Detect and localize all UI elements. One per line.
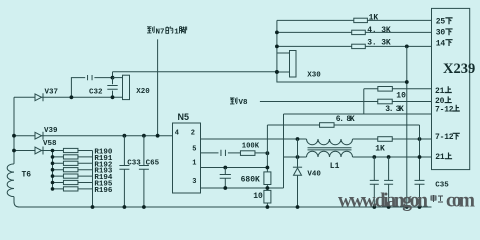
wire R195 row	[53, 182, 93, 184]
op-amp IC N5	[173, 123, 201, 193]
wire 21shang lower left	[284, 156, 307, 158]
svg-text:C32: C32	[89, 88, 103, 96]
wire 100K to node	[255, 152, 267, 154]
svg-text:N5: N5	[178, 112, 190, 122]
svg-text:4. 3K: 4. 3K	[367, 26, 391, 35]
capacitor C35	[415, 180, 425, 184]
svg-text:V58: V58	[43, 140, 57, 148]
svg-text:com: com	[446, 191, 475, 212]
wire C65 upper	[143, 136, 145, 166]
inductor L1 top winding	[307, 139, 353, 145]
junction C65 bottom	[142, 205, 146, 209]
wire R ladder rail right	[92, 151, 94, 208]
label dao (to) of V8 note	[230, 97, 237, 104]
svg-text:7-12: 7-12	[435, 105, 454, 114]
label de of N7 note	[166, 26, 173, 33]
resistor 10 vertical	[264, 190, 271, 203]
svg-text:N7: N7	[156, 28, 165, 36]
terminal 30xia cjk	[445, 29, 452, 35]
wire C65 lower	[143, 169, 145, 207]
wire cap b	[388, 157, 390, 207]
svg-text:X30: X30	[307, 71, 321, 79]
svg-text:5: 5	[192, 145, 196, 153]
wire 30xia 4.3K	[277, 31, 432, 33]
wire N5 pin5 to cap	[201, 152, 219, 154]
wire R196 row	[53, 188, 93, 190]
junction R190 left	[51, 149, 55, 153]
wire 6.8K net	[267, 124, 419, 126]
resistor R193	[63, 168, 77, 172]
wire pin3 riser	[283, 114, 285, 188]
svg-text:100K: 100K	[242, 143, 260, 151]
capacitor pin1-pin3	[220, 175, 231, 179]
wire R193 row	[53, 169, 93, 171]
svg-text:C35: C35	[435, 181, 449, 189]
diode V58	[35, 147, 42, 154]
junction C65 top	[142, 134, 146, 138]
svg-text:3: 3	[192, 178, 196, 186]
junction rail 3.3K	[275, 45, 279, 49]
resistor R195	[63, 180, 77, 184]
wire X30 bottom lead	[277, 71, 290, 73]
capacitor filter a	[370, 180, 379, 184]
junction C32 bottom node	[111, 95, 115, 99]
junction R194 left	[51, 174, 55, 178]
wire C33 lower	[123, 169, 125, 207]
svg-text:21: 21	[435, 153, 445, 162]
junction 14xia gnd riser	[405, 45, 409, 49]
junction R193 left	[51, 168, 55, 172]
wire cap to 100K	[228, 152, 240, 154]
connector X30	[290, 51, 297, 78]
junction gnd riser top net	[405, 80, 409, 84]
svg-text:1: 1	[174, 28, 179, 36]
svg-text:1: 1	[192, 160, 196, 168]
wire gnd riser	[406, 46, 408, 207]
resistor 1K upper	[354, 18, 368, 22]
terminal 14xia cjk	[445, 40, 452, 46]
wire right net rail	[277, 20, 407, 82]
wire C32 top to node	[94, 77, 112, 79]
wire N5 pin3	[201, 187, 284, 189]
inductor L1 core lines	[308, 148, 352, 150]
svg-text:6. 8K: 6. 8K	[336, 115, 355, 124]
label jiao (pin) of N7 note	[179, 27, 186, 34]
wire N5 pin1	[201, 167, 268, 169]
wire C33 upper	[123, 136, 125, 166]
resistor 100K	[240, 151, 255, 156]
capacitor C32	[107, 86, 117, 90]
resistor 680K	[264, 172, 271, 185]
svg-text:3. 3K: 3. 3K	[367, 38, 391, 47]
resistor 4.3K	[352, 30, 366, 34]
svg-text:30: 30	[436, 29, 446, 38]
junction 100K node	[266, 151, 270, 155]
resistor R196	[63, 187, 77, 191]
resistor 6.8K	[320, 123, 335, 128]
wire R192 row	[53, 162, 93, 164]
svg-text:X239: X239	[443, 61, 475, 77]
diode V40	[294, 168, 302, 175]
wire C35 riser upper	[419, 125, 421, 180]
junction cap a top	[372, 155, 376, 159]
junction pin1 680K	[266, 166, 270, 170]
svg-text:4: 4	[175, 129, 179, 137]
wire 21shang upper	[364, 88, 432, 90]
svg-text:V39: V39	[44, 127, 58, 135]
wire N5 pin2 to L1	[201, 138, 307, 140]
svg-text:10: 10	[253, 192, 263, 201]
wire C32 cap stub	[112, 78, 114, 98]
wire V37 anode-cathode	[14, 96, 123, 98]
svg-text:2: 2	[191, 129, 195, 137]
svg-text:25: 25	[436, 18, 446, 27]
terminal 7-12xia cjk	[453, 133, 460, 139]
wire 25xia 1K	[277, 19, 432, 21]
terminal 25xia cjk	[445, 18, 452, 24]
capacitor pin5 series	[221, 150, 226, 156]
junction R191 left	[51, 155, 55, 159]
svg-text:V37: V37	[45, 89, 59, 97]
resistor R192	[63, 161, 77, 165]
wire left rail top	[13, 97, 15, 164]
wire top net	[113, 71, 277, 73]
svg-text:C65: C65	[146, 160, 160, 168]
wire node riser to top net	[112, 72, 114, 78]
terminal 21shang upper cjk	[445, 86, 452, 92]
junction C33 bottom	[123, 205, 127, 209]
terminal 21shang lower cjk	[445, 153, 452, 159]
junction pin3 cap	[223, 186, 227, 190]
terminal 7-12shang cjk	[453, 105, 460, 111]
wire L1 to 7-12xia terminal	[353, 138, 432, 140]
wire R194 row	[53, 175, 93, 177]
svg-text:X20: X20	[136, 88, 150, 96]
wire to N7 pin1	[157, 39, 159, 135]
svg-text:V40: V40	[307, 171, 321, 179]
junction cap a gnd	[372, 205, 376, 209]
capacitor filter b	[384, 180, 393, 184]
resistor R194	[63, 174, 77, 178]
junction top net rail	[275, 70, 279, 74]
junction C35 21shang	[418, 155, 422, 159]
capacitor C33	[119, 166, 129, 170]
resistor 3.3K upper	[352, 44, 366, 48]
junction C32 left	[70, 95, 74, 99]
svg-text:10: 10	[396, 92, 406, 101]
wire 14xia 3.3K	[277, 45, 432, 47]
diode V39	[35, 132, 42, 139]
junction R195 left	[51, 181, 55, 185]
svg-text:14: 14	[436, 39, 446, 48]
junction rail 4.3K	[275, 31, 279, 35]
wire 20shang toV8	[260, 101, 432, 103]
label dao (to) of N7 note	[147, 26, 154, 33]
resistor 10 upper	[378, 87, 393, 92]
wire left rail bottom / bottom-left corner	[14, 197, 19, 207]
svg-text:T6: T6	[22, 170, 32, 179]
junction 267 gnd	[266, 205, 270, 209]
junction R rail bottom	[91, 205, 95, 209]
junction pin3 680K-10	[266, 186, 270, 190]
wire V40 line lower	[297, 176, 299, 207]
resistor 3.3K lower	[378, 99, 393, 104]
wire pin1-cap stub	[224, 168, 226, 189]
svg-text:7-12: 7-12	[435, 133, 454, 142]
wire C32 riser left	[71, 78, 85, 98]
svg-text:R196: R196	[94, 187, 113, 195]
junction pin1 cap	[223, 166, 227, 170]
svg-text:C33: C33	[127, 160, 141, 168]
wire V58 row	[14, 150, 53, 152]
junction rail X30 bottom	[275, 70, 279, 74]
wire V40 line upper	[297, 139, 299, 167]
wire R ladder rail left	[52, 151, 54, 189]
capacitor series of C32	[88, 75, 93, 80]
svg-text:1K: 1K	[375, 145, 385, 154]
wire X30 top lead	[277, 52, 290, 54]
wire X20 top lead	[113, 77, 123, 79]
watermark logo mark	[431, 195, 443, 202]
junction rail V58	[12, 149, 16, 153]
terminal 20shang cjk	[445, 96, 452, 102]
junction R192 left	[51, 162, 55, 166]
wire cap a	[373, 157, 375, 207]
wire bottom rail	[18, 206, 432, 208]
capacitor C65	[139, 166, 149, 170]
inductor L1 bottom winding	[307, 151, 353, 157]
wire C35 riser lower	[419, 184, 421, 207]
svg-text:21: 21	[435, 87, 445, 96]
junction cap b gnd	[387, 205, 391, 209]
wire V39 row	[14, 135, 173, 137]
svg-text:1K: 1K	[369, 13, 379, 22]
svg-text:3. 3K: 3. 3K	[385, 105, 404, 114]
junction C32 top node	[111, 76, 115, 80]
transformer winding T6	[7, 164, 14, 197]
connector X20	[123, 75, 130, 99]
junction gnd riser bottom	[405, 205, 409, 209]
junction cap b top	[387, 155, 391, 159]
junction 7-12xia C35 line	[418, 137, 422, 141]
junction V40 gnd	[296, 205, 300, 209]
wire 21shang link	[363, 89, 365, 114]
wire R190 row	[53, 150, 93, 152]
wire R191 row	[53, 156, 93, 158]
resistor R190	[63, 148, 77, 152]
junction C35 gnd	[418, 205, 422, 209]
junction C33 top	[123, 134, 127, 138]
svg-text:L1: L1	[330, 162, 340, 171]
wire 7-12shang	[284, 113, 432, 115]
wire 267 net vertical	[266, 125, 268, 207]
resistor 1K lower	[378, 137, 393, 142]
svg-text:680K: 680K	[241, 175, 260, 184]
resistor R191	[63, 155, 77, 159]
junction R196 left	[51, 187, 55, 191]
svg-text:V8: V8	[239, 99, 249, 107]
junction rail V39	[12, 134, 16, 138]
junction N7 line	[156, 134, 160, 138]
junction pin2 V40 line	[296, 137, 300, 141]
svg-text:www.diangon: www.diangon	[338, 191, 428, 212]
IC connector X239	[432, 8, 470, 169]
diode V37	[35, 94, 42, 101]
wire 21shang lower right	[353, 156, 432, 158]
junction L1 bottom left	[296, 155, 300, 159]
